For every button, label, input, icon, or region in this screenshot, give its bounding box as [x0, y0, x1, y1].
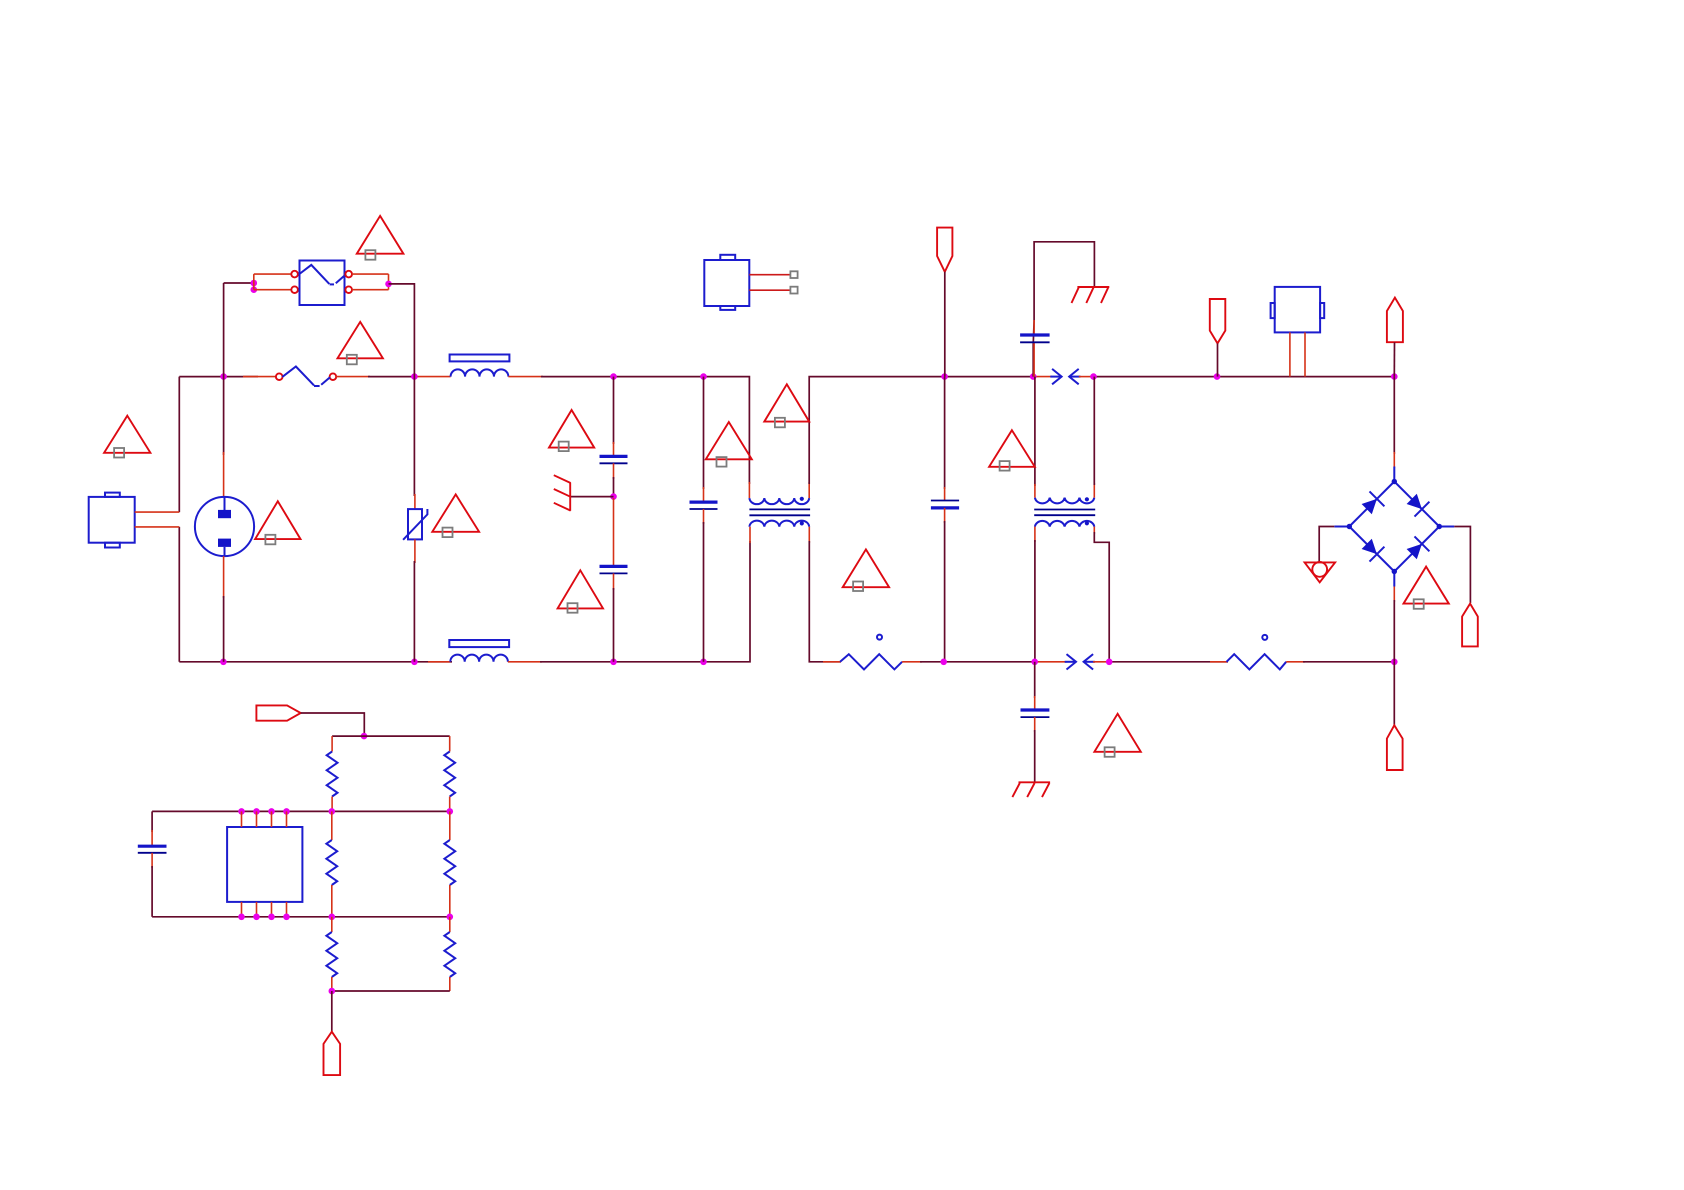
thermistor RT2	[1227, 635, 1287, 670]
transformer T1	[749, 497, 810, 527]
capacitor C6 pin bottom	[1034, 717, 1036, 732]
connector J1 pin2	[135, 526, 180, 528]
resistor R4 pin bottom	[449, 885, 451, 917]
breaker CB1 pins right	[345, 271, 388, 293]
capacitor CX1	[690, 502, 718, 509]
thermistor RT2 pin left	[1210, 661, 1228, 663]
junction	[329, 914, 336, 921]
wire breaker right link	[389, 284, 415, 496]
transformer T1 pin bottom-right	[808, 527, 810, 543]
connector J3	[704, 255, 749, 310]
warning triangle W6	[549, 410, 594, 451]
junction	[1391, 373, 1398, 380]
capacitor CY2 pin top	[613, 498, 615, 566]
wire cap C7 branch	[151, 811, 153, 832]
terminal flag TP1	[937, 228, 952, 377]
thermistor RT2 pin right	[1286, 661, 1305, 663]
transformer T1 pin top-right	[808, 482, 810, 498]
wire top rail stage1 right	[541, 377, 749, 484]
lamp DS1	[195, 497, 254, 556]
choke L1 pin left	[416, 376, 451, 378]
resistor R3	[326, 840, 337, 885]
junction	[411, 373, 418, 380]
junction	[1214, 373, 1221, 380]
capacitor C5 pin bottom	[1033, 342, 1035, 376]
warning triangle W7	[558, 570, 603, 612]
bridge D1 pin top	[1393, 452, 1395, 468]
wire top rail stage2 spark pin left	[1033, 376, 1052, 378]
breaker CB1 pins left	[254, 271, 298, 293]
wire bottom spark pin right	[1093, 661, 1109, 663]
junction	[411, 659, 418, 666]
transformer T1 pin top-left	[748, 482, 750, 498]
wire C6 branch down	[1034, 662, 1036, 698]
connector J1 pin1	[135, 511, 180, 513]
wire T2 secondary right down	[1094, 532, 1109, 662]
ground chassis GND2	[1072, 287, 1110, 303]
resistor R6 pin top	[449, 917, 451, 932]
resistor R2 pin bottom	[449, 797, 451, 812]
resistor R2	[444, 752, 455, 797]
transformer T2	[1034, 497, 1095, 526]
ground chassis GND1	[554, 475, 614, 511]
resistor R1	[327, 752, 338, 797]
lamp DS1 pin bottom	[223, 556, 225, 598]
thermistor RT1	[840, 635, 902, 670]
warning triangle W8	[706, 422, 752, 467]
capacitor CY2 pin bottom	[613, 573, 615, 590]
junction	[700, 659, 707, 666]
warning triangle W5	[432, 494, 479, 537]
wire C6 to GND3	[1034, 730, 1036, 782]
capacitor CX1 pin bottom	[703, 509, 705, 524]
junction	[251, 286, 258, 293]
transformer T2 pin bottom-left	[1034, 527, 1036, 542]
wire bottom rail stage2 mid	[920, 661, 1035, 663]
junction	[220, 659, 227, 666]
wire divider bottom	[332, 990, 450, 992]
capacitor C5	[1020, 335, 1050, 342]
junction	[1391, 659, 1398, 666]
thermistor RT1 pin left	[823, 661, 841, 663]
wire bottom rail stage1 right	[540, 541, 750, 662]
resistor R4 pin top	[449, 811, 451, 840]
spark gap E2	[1065, 654, 1095, 669]
wire bottom rail stage2 right	[1109, 661, 1228, 663]
junction	[251, 280, 258, 287]
warning triangle W3	[104, 416, 150, 458]
warning triangle W10	[843, 549, 889, 591]
bridge rectifier D1	[1334, 467, 1454, 587]
resistor R5	[326, 932, 337, 977]
wire top rail stage2 left	[809, 377, 1035, 484]
resistor R3 pin top	[331, 811, 333, 840]
junction	[283, 914, 290, 921]
resistor R6 pin bottom	[449, 977, 451, 991]
wire lamp trunk lower	[223, 596, 225, 662]
varistor RV1	[403, 509, 427, 540]
breaker CB1	[299, 261, 344, 306]
choke L1 pin right	[508, 376, 543, 378]
inductor L1 top	[450, 355, 510, 377]
transformer T2 pin bottom-right	[1093, 527, 1095, 534]
wire top rail stage1 mid	[368, 376, 416, 378]
resistor R4	[444, 840, 455, 885]
warning triangle W1	[357, 216, 404, 260]
wire to flag TP5	[1393, 662, 1395, 726]
capacitor CY1	[600, 456, 628, 463]
resistor R6	[444, 932, 455, 977]
capacitor CY1 pin top	[613, 442, 615, 456]
wire C5 branch	[1033, 242, 1094, 377]
choke L2 pin left	[428, 661, 450, 663]
wire rail to bridge top	[1393, 377, 1395, 454]
capacitor C6	[1021, 710, 1050, 717]
junction	[610, 373, 617, 380]
wire bus1	[152, 810, 450, 812]
lamp DS1 pin top	[223, 452, 225, 498]
no-connect square	[790, 287, 797, 294]
wire TP1 branch down	[944, 377, 946, 489]
wire T2 primary left	[1034, 377, 1036, 486]
junction	[1031, 659, 1038, 666]
transformer T1 pin bottom-left	[749, 527, 751, 543]
junction	[283, 808, 290, 815]
varistor RV1 pin top	[414, 494, 416, 509]
resistor R1 pin top	[331, 736, 333, 751]
junction	[268, 808, 275, 815]
capacitor C6 pin top	[1034, 696, 1036, 710]
junction	[1090, 373, 1097, 380]
junction	[268, 914, 275, 921]
ground earth GND4	[1305, 562, 1336, 582]
IC U1	[227, 827, 302, 902]
wire lamp trunk upper	[223, 283, 225, 455]
connector J3 pin1	[749, 274, 790, 276]
wire left vertical lower	[178, 527, 180, 662]
resistor R1 pin bottom	[331, 797, 333, 812]
capacitor C4 pin top	[944, 487, 946, 501]
resistor R3 pin bottom	[331, 885, 333, 917]
capacitor C7 pin top	[151, 830, 153, 846]
terminal flag TP6	[256, 705, 364, 736]
wire bridge left to earth	[1319, 527, 1334, 563]
wire bridge right to output	[1454, 527, 1470, 604]
capacitor C5 pin top	[1033, 320, 1035, 335]
junction	[447, 808, 454, 815]
terminal flag TP4	[1462, 604, 1478, 647]
junction	[253, 914, 260, 921]
wire bottom spark pin left	[1035, 661, 1067, 663]
wire Y-cap mid	[613, 477, 615, 500]
wire top rail stage2 right	[1094, 376, 1395, 378]
connector J2 pin1	[1289, 332, 1291, 376]
fuse F1	[276, 367, 336, 387]
warning triangle W12	[1094, 714, 1140, 757]
connector J2	[1271, 287, 1325, 333]
varistor RV1 pin bottom	[414, 539, 416, 563]
capacitor C4 pin bottom	[944, 508, 946, 523]
wire T2 secondary left down	[1034, 540, 1036, 662]
resistor R5 pin top	[331, 917, 333, 932]
capacitor C7 pin bottom	[151, 853, 153, 868]
wire to flag TP7	[331, 991, 333, 1032]
capacitor CY2	[600, 566, 628, 573]
capacitor CY1 pin bottom	[613, 463, 615, 479]
capacitor CX1 pin top	[703, 487, 705, 502]
connector J2 pin2	[1304, 332, 1306, 376]
connector J1 AC inlet	[89, 493, 135, 548]
wire cap C7 to bus2	[151, 866, 153, 917]
spark gap E1	[1050, 369, 1080, 384]
capacitor C7	[138, 846, 167, 853]
no-connect square	[790, 271, 797, 278]
wire fuse pin left	[243, 376, 276, 378]
IC U1 pins bottom	[242, 902, 287, 917]
wire bottom rail stage1	[179, 661, 452, 663]
wire breaker left link	[224, 282, 254, 284]
junction	[610, 493, 617, 500]
wire Y-cap chain bottom	[613, 588, 615, 662]
junction	[1106, 659, 1113, 666]
junction	[253, 808, 260, 815]
wire X-cap bottom	[703, 522, 705, 662]
junction	[941, 373, 948, 380]
IC U1 pins top	[242, 811, 287, 827]
terminal flag TP3	[1387, 298, 1403, 377]
wire varistor to bottom rail	[413, 561, 415, 662]
wire bottom rail stage2 left	[809, 541, 841, 662]
terminal flag TP7	[324, 1032, 341, 1075]
connector J3 pin2	[749, 289, 790, 291]
terminal flag TP2	[1210, 299, 1226, 377]
thermistor RT1 pin right	[902, 661, 922, 663]
wire top rail stage2 spark pin right	[1079, 376, 1094, 378]
junction	[220, 373, 227, 380]
junction	[447, 914, 454, 921]
warning triangle W2	[338, 322, 383, 364]
capacitor C4	[931, 501, 959, 508]
wire left vertical to AC inlet	[178, 377, 180, 512]
junction	[329, 988, 336, 995]
bridge D1 pin bottom	[1393, 587, 1395, 603]
warning triangle W4	[255, 501, 300, 544]
junction	[329, 808, 336, 815]
junction	[940, 659, 947, 666]
warning triangle W13	[1404, 567, 1449, 609]
wire X-cap top	[703, 377, 705, 489]
choke L2 pin right	[508, 661, 542, 663]
transformer T2 pin top-left	[1034, 484, 1036, 498]
wire top rail stage1 left	[179, 376, 258, 378]
wire bridge bottom to rail	[1393, 600, 1395, 662]
wire bottom rail stage2 end	[1303, 661, 1394, 663]
junction	[238, 808, 245, 815]
junction	[1030, 373, 1037, 380]
resistor R5 pin bottom	[331, 977, 333, 991]
junction	[238, 914, 245, 921]
warning triangle W11	[989, 430, 1035, 470]
resistor R2 pin top	[449, 736, 451, 751]
transformer T2 pin top-right	[1093, 483, 1095, 498]
warning triangle W9	[764, 384, 809, 427]
ground chassis GND3	[1012, 782, 1050, 797]
wire Y-cap chain top	[613, 377, 615, 444]
junction	[385, 281, 392, 288]
inductor L2 bottom	[449, 640, 509, 662]
terminal flag TP5	[1387, 725, 1403, 770]
wire C4 to bottom rail	[944, 521, 946, 662]
junction	[700, 373, 707, 380]
junction	[610, 659, 617, 666]
junction	[361, 733, 368, 740]
wire divider top	[332, 735, 450, 737]
wire fuse pin right	[336, 376, 370, 378]
wire bus2	[152, 916, 450, 918]
wire T2 primary right up	[1093, 377, 1095, 485]
